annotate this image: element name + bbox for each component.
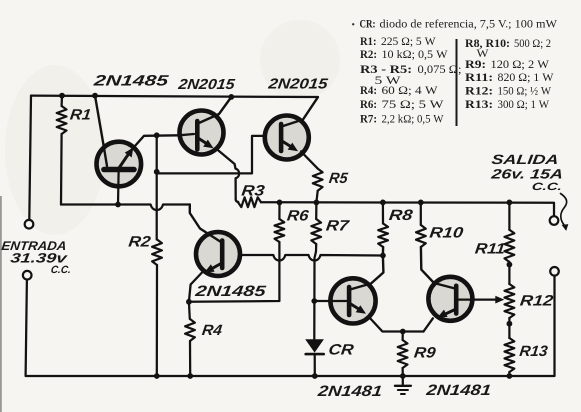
svg-text:2N2015: 2N2015	[266, 77, 329, 93]
svg-text:C.C.: C.C.	[50, 264, 72, 276]
svg-text:R10: R10	[429, 225, 465, 242]
svg-text:R11:: R11:	[465, 70, 493, 84]
svg-text:R12: R12	[519, 293, 555, 310]
svg-text:0,075 Ω;: 0,075 Ω;	[418, 62, 462, 76]
svg-text:60 Ω; 4 W: 60 Ω; 4 W	[382, 83, 439, 97]
svg-text:diodo de referencia, 7,5 V.; 1: diodo de referencia, 7,5 V.; 100 mW	[380, 16, 558, 30]
svg-text:10 kΩ; 0,5 W: 10 kΩ; 0,5 W	[382, 47, 449, 61]
svg-text:R1:: R1:	[360, 34, 377, 48]
svg-text:R7:: R7:	[360, 111, 377, 125]
svg-text:2N1485: 2N1485	[193, 283, 267, 300]
svg-text:225 Ω; 5 W: 225 Ω; 5 W	[381, 34, 436, 48]
svg-text:2,2 kΩ; 0,5 W: 2,2 kΩ; 0,5 W	[382, 111, 445, 125]
svg-text:26v. 15A: 26v. 15A	[489, 167, 564, 182]
svg-text:300 Ω; 1 W: 300 Ω; 1 W	[498, 97, 550, 111]
svg-text:120 Ω; 2 W: 120 Ω; 2 W	[491, 57, 550, 71]
svg-text:2N1481: 2N1481	[316, 383, 383, 400]
svg-text:2N1485: 2N1485	[92, 73, 170, 90]
svg-text:R8: R8	[388, 207, 414, 224]
svg-text:R6: R6	[286, 208, 310, 225]
svg-text:2N1481: 2N1481	[424, 382, 492, 399]
svg-text:CR:: CR:	[360, 16, 376, 30]
svg-text:R4:: R4:	[360, 83, 377, 97]
svg-text:CR: CR	[328, 342, 355, 359]
svg-text:R7: R7	[325, 218, 350, 235]
svg-text:R5: R5	[328, 170, 349, 187]
svg-text:R1: R1	[69, 107, 92, 124]
svg-text:R2: R2	[128, 233, 153, 250]
svg-text:500 Ω; 2: 500 Ω; 2	[514, 36, 551, 50]
svg-text:2N2015: 2N2015	[176, 77, 236, 93]
svg-text:R2:: R2:	[360, 47, 377, 61]
svg-text:R11: R11	[474, 241, 506, 258]
svg-text:C.C.: C.C.	[531, 181, 563, 193]
svg-text:SALIDA: SALIDA	[491, 152, 560, 167]
svg-text:820 Ω; 1 W: 820 Ω; 1 W	[498, 70, 555, 84]
svg-text:R3: R3	[241, 183, 267, 200]
svg-text:R6:: R6:	[360, 97, 377, 111]
svg-text:150 Ω; ½ W: 150 Ω; ½ W	[498, 84, 552, 98]
svg-text:R4: R4	[201, 322, 224, 339]
svg-text:R13: R13	[519, 343, 550, 360]
svg-text:R9: R9	[413, 345, 437, 362]
svg-text:R12:: R12:	[465, 84, 493, 98]
svg-text:R9:: R9:	[465, 57, 486, 71]
svg-text:75 Ω; 5 W: 75 Ω; 5 W	[382, 97, 445, 111]
svg-text:R13:: R13:	[465, 97, 493, 111]
